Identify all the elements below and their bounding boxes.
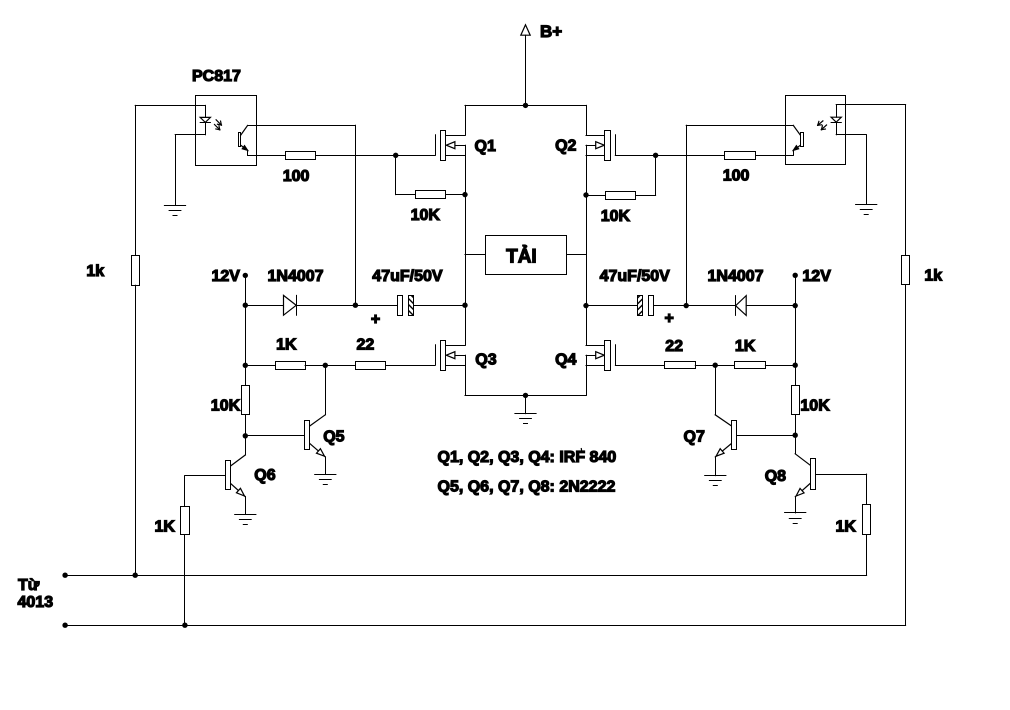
svg-text:Từ: Từ [18,577,40,594]
svg-text:Q8: Q8 [765,468,786,485]
svg-text:1K: 1K [276,337,297,354]
svg-text:10K: 10K [211,398,241,415]
svg-text:Q4: Q4 [555,351,576,368]
svg-text:1K: 1K [155,519,176,536]
svg-text:Q3: Q3 [475,351,496,368]
svg-text:1k: 1k [86,263,104,280]
svg-text:TẢI: TẢI [506,245,537,267]
svg-text:1N4007: 1N4007 [708,268,764,285]
svg-text:10K: 10K [411,207,441,224]
svg-text:1k: 1k [924,268,942,285]
svg-text:47uF/50V: 47uF/50V [600,268,671,285]
svg-text:10K: 10K [601,208,631,225]
svg-text:+: + [371,311,380,328]
svg-text:10K: 10K [800,398,830,415]
svg-text:+: + [665,310,674,327]
svg-text:1N4007: 1N4007 [268,268,324,285]
svg-text:100: 100 [283,168,310,185]
svg-text:Q1: Q1 [475,138,496,155]
svg-text:22: 22 [357,337,375,354]
svg-text:12V: 12V [212,268,241,285]
svg-text:1K: 1K [735,338,756,355]
svg-text:Q5, Q6, Q7, Q8: 2N2222: Q5, Q6, Q7, Q8: 2N2222 [438,479,616,496]
svg-text:B+: B+ [540,22,562,41]
svg-text:100: 100 [723,168,750,185]
svg-text:12V: 12V [802,268,831,285]
svg-text:Q1, Q2, Q3, Q4: IRF 840: Q1, Q2, Q3, Q4: IRF 840 [438,449,617,466]
svg-text:22: 22 [665,338,683,355]
svg-text:Q2: Q2 [555,138,576,155]
svg-text:4013: 4013 [18,594,54,611]
svg-text:Q7: Q7 [684,429,705,446]
svg-text:Q5: Q5 [323,429,344,446]
svg-text:PC817: PC817 [192,68,241,85]
svg-text:1K: 1K [836,519,857,536]
svg-text:Q6: Q6 [254,467,275,484]
svg-text:47uF/50V: 47uF/50V [372,268,443,285]
